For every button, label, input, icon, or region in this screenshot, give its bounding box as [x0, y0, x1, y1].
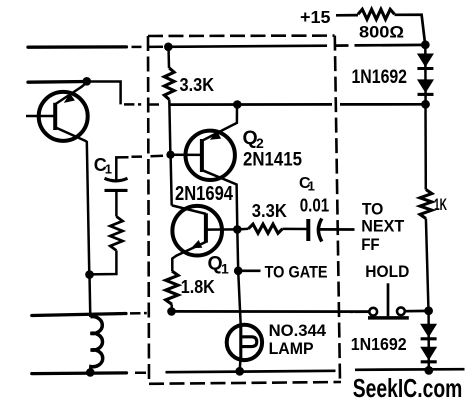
resistor 800 ohm: [358, 9, 395, 19]
node 1.8K bottom on hold rail: [167, 307, 176, 316]
label +15: [300, 7, 331, 27]
node lamp bottom on ground rail: [235, 367, 244, 376]
node coil bottom on rail: [86, 368, 95, 377]
node Q2 base junction: [166, 151, 174, 159]
svg-text:3.3K: 3.3K: [180, 75, 215, 95]
resistor 3.3K output: [237, 224, 308, 233]
svg-text:1: 1: [105, 162, 112, 177]
svg-text:1N1692: 1N1692: [351, 334, 407, 354]
label 2N1415: [243, 148, 302, 170]
label 3.3K output: [252, 200, 288, 221]
wire from emitter node to dashed box (corner down): [87, 82, 159, 105]
capacitor C1 (left) plates: [105, 178, 128, 190]
transistor Q1 2N1694 NPN: [172, 205, 238, 271]
watermark SeekIC.com: [353, 373, 463, 403]
svg-text:2N1415: 2N1415: [243, 148, 302, 170]
capacitor C1 left lead from top: [116, 156, 163, 180]
label 1N1692 lower: [351, 334, 407, 354]
svg-text:TO: TO: [362, 200, 384, 218]
label C1 right: [299, 175, 315, 193]
wire horizontal line 2 to transistor emitter node: [28, 80, 87, 84]
svg-text:1K: 1K: [434, 195, 447, 214]
label 1N1692 upper: [352, 66, 408, 88]
dashed enclosure box top edge: [148, 34, 335, 37]
resistor left unlabeled: [110, 217, 122, 251]
lamp NO.344: [227, 325, 262, 372]
dashed enclosure box bottom edge: [149, 382, 341, 384]
label 3.3K upper: [180, 75, 215, 95]
svg-text:0.01: 0.01: [300, 196, 330, 216]
wire +15 to 800 ohm: [336, 14, 358, 17]
wire bottom rail inside box: [166, 371, 336, 372]
wire left vertical below node into coil: [88, 275, 91, 317]
label NO.344: [269, 322, 327, 340]
wire bottom rail right section: [355, 368, 465, 371]
wire node A down to lamp: [237, 229, 240, 325]
wire collector rail y=105: [169, 103, 425, 106]
resistor 1.8K: [166, 271, 178, 311]
capacitor C1 0.01 plates: [308, 219, 322, 242]
diode D1 1N1692: [417, 54, 434, 69]
wire rail left-bottom 1 (to 1.8K bottom): [32, 313, 147, 315]
label 800 ohm: [359, 22, 404, 41]
node Q1 base / Q2 collector junction: [233, 225, 242, 234]
label 0.01: [300, 196, 330, 216]
switch HOLD pushbutton: [350, 283, 429, 318]
resistor 3.3K upper: [164, 47, 174, 155]
node Q2 emitter on rail: [233, 100, 242, 109]
wire Q2 base node down to Q1 collector: [171, 155, 172, 206]
svg-text:1N1692: 1N1692: [352, 66, 408, 88]
label C1 left: [94, 155, 112, 177]
node top of 3.3K resistor: [164, 43, 173, 52]
diode D3 1N1692: [420, 324, 437, 339]
node diode chain bottom / rail: [421, 100, 430, 109]
inductor coil left: [90, 317, 102, 373]
svg-text:SeekIC.com: SeekIC.com: [353, 373, 463, 403]
node bottom rail / diode chain 2: [424, 366, 433, 375]
transistor left PNP: [39, 82, 88, 142]
node hold rail / diode chain 2: [424, 306, 433, 315]
node emitter junction of left transistor: [83, 77, 92, 86]
label Q2: [243, 127, 265, 151]
wire diode column upper: [424, 45, 427, 105]
label TO NEXT FF: [361, 200, 404, 254]
svg-text:TO GATE: TO GATE: [265, 262, 328, 281]
node junction left vertical / resistor: [85, 270, 94, 279]
svg-text:800Ω: 800Ω: [359, 22, 404, 41]
label 1.8K: [181, 276, 216, 297]
label 1K: [434, 195, 447, 214]
wire diode column lower: [427, 311, 430, 371]
svg-text:3.3K: 3.3K: [252, 200, 288, 221]
wire resistor bottom L to left vertical: [90, 251, 117, 275]
dashed enclosure box left edge: [148, 36, 149, 384]
svg-text:HOLD: HOLD: [365, 262, 409, 281]
wire column to 1K: [424, 104, 427, 189]
wire +15 rail to right column: [168, 45, 425, 47]
transistor Q2 2N1415 PNP: [171, 105, 238, 230]
svg-text:LAMP: LAMP: [269, 340, 314, 358]
wire C1 bottom to resistor: [115, 190, 118, 216]
wire 800 ohm to column corner: [395, 15, 426, 45]
dashed enclosure box right edge: [335, 36, 340, 382]
wire TO GATE stub: [238, 269, 260, 272]
svg-text:1: 1: [308, 178, 315, 193]
label TO GATE: [265, 262, 328, 281]
wire capacitor to next FF: [319, 228, 355, 231]
svg-text:2N1694: 2N1694: [175, 183, 234, 205]
resistor 1K: [420, 190, 432, 219]
svg-text:1: 1: [221, 261, 229, 277]
diode D2 1N1692: [417, 79, 434, 94]
label LAMP: [269, 340, 314, 358]
wire collector of left transistor down left vertical: [87, 141, 90, 275]
svg-text:NO.344: NO.344: [269, 322, 327, 340]
wire rail left-bottom 2: [32, 371, 146, 375]
diode D4 1N1692: [420, 347, 437, 362]
wire 1K to hold rail: [426, 219, 429, 311]
label HOLD: [365, 262, 409, 281]
label Q1: [208, 253, 230, 277]
node diode chain top: [421, 40, 430, 49]
label 2N1694: [175, 183, 234, 205]
wire top-left horizontal line 1: [28, 45, 163, 49]
svg-text:FF: FF: [361, 236, 380, 254]
node TO GATE tap: [234, 267, 243, 276]
svg-text:NEXT: NEXT: [361, 218, 404, 236]
svg-text:+15: +15: [300, 7, 331, 27]
wire base lead of left transistor: [26, 115, 56, 118]
svg-text:1.8K: 1.8K: [181, 276, 216, 297]
wire hold rail inside box: [172, 310, 370, 313]
